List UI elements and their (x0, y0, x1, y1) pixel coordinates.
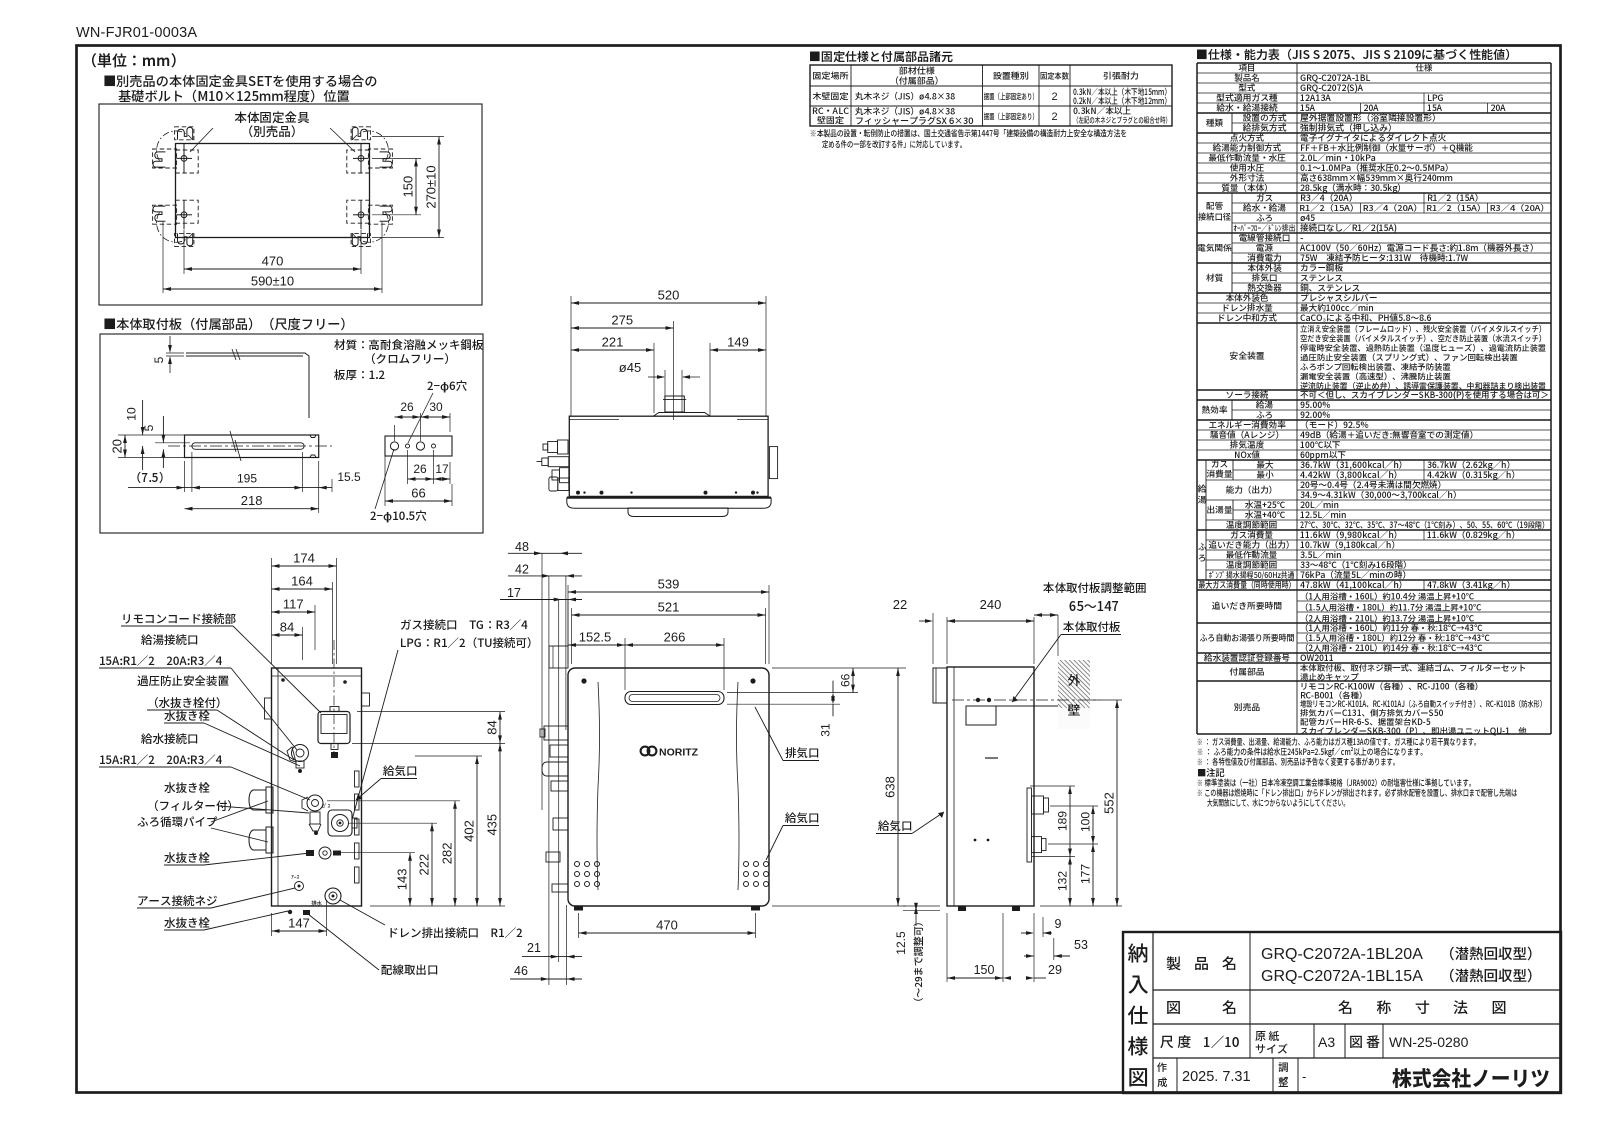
leader lines (190, 128, 213, 152)
svg-text:材質: 材質 (1206, 272, 1224, 284)
svg-text:電気関係: 電気関係 (1197, 242, 1232, 254)
svg-text:150: 150 (401, 176, 416, 198)
svg-text:150: 150 (974, 963, 995, 977)
svg-text:65～147: 65～147 (1069, 596, 1119, 615)
svg-text:図 番: 図 番 (1349, 1032, 1380, 1052)
svg-text:147: 147 (288, 916, 310, 931)
svg-text:ø45: ø45 (619, 360, 641, 375)
svg-text:リモコンコード接続部: リモコンコード接続部 (121, 611, 236, 627)
svg-text:22: 22 (893, 597, 907, 612)
svg-text:15A:R1／2 20A:R3／4: 15A:R1／2 20A:R3／4 (99, 653, 223, 669)
svg-text:本体取付板: 本体取付板 (1063, 619, 1121, 635)
svg-text:R3／4（20A）: R3／4（20A） (1363, 202, 1423, 214)
svg-text:板厚：1.2: 板厚：1.2 (334, 367, 385, 383)
svg-text:402: 402 (462, 820, 477, 842)
front view: louver dots bottom-left (575, 862, 580, 867)
svg-text:GRQ-C2072A-1BL15A: GRQ-C2072A-1BL15A (1261, 968, 1423, 985)
front view: body (568, 668, 769, 906)
svg-text:1／10: 1／10 (1203, 1031, 1240, 1051)
NORITZ logo (641, 747, 699, 759)
front view: creases (597, 682, 600, 890)
svg-text:21: 21 (527, 941, 541, 955)
svg-text:42: 42 (515, 563, 529, 577)
right side view: body (947, 667, 1034, 906)
svg-text:排水: 排水 (311, 899, 323, 907)
svg-text:552: 552 (1102, 792, 1117, 814)
svg-text:66: 66 (411, 486, 425, 501)
scale row (1313, 1024, 1315, 1058)
bolt top-left (153, 127, 199, 173)
wall with hatch (1003, 658, 1145, 729)
svg-text:164: 164 (291, 574, 313, 589)
svg-text:水抜き栓: 水抜き栓 (164, 708, 210, 724)
svg-text:LPG：R1／2（TU接続可）: LPG：R1／2（TU接続可） (400, 635, 539, 651)
drain connection (325, 888, 341, 904)
plate top profile (186, 353, 309, 418)
svg-text:590±10: 590±10 (251, 274, 294, 289)
svg-text:据置（上部固定あり）: 据置（上部固定あり） (984, 111, 1038, 123)
svg-text:付属部品: 付属部品 (1228, 665, 1264, 678)
remote cover tab on left edge (265, 698, 272, 719)
svg-text:給気口: 給気口 (383, 763, 418, 779)
center dash-dot line (168, 445, 332, 447)
svg-text:ふろ自動お湯張り所要時間: ふろ自動お湯張り所要時間 (1200, 631, 1295, 644)
svg-text:成: 成 (1157, 1075, 1168, 1090)
svg-text:ガス接続口 TG：R3／4: ガス接続口 TG：R3／4 (400, 617, 528, 633)
147 dim below left side view (271, 913, 273, 936)
svg-text:46: 46 (514, 964, 528, 978)
svg-text:2: 2 (1051, 91, 1057, 103)
svg-text:安全装置: 安全装置 (1229, 349, 1264, 362)
right-side vertical dims of side view: 143/222/282/402/435/84 (334, 852, 415, 854)
svg-text:定める件の一部を改訂する件」に対応しています。: 定める件の一部を改訂する件」に対応しています。 (822, 139, 966, 151)
svg-text:固定本数: 固定本数 (1040, 70, 1069, 82)
12.5 adjustable feet dim (903, 905, 940, 907)
svg-text:48: 48 (515, 540, 529, 554)
right bracket piece (385, 436, 452, 456)
svg-text:R1／2（15A）: R1／2（15A） (1426, 202, 1486, 214)
svg-text:R3／4（20A）: R3／4（20A） (1490, 202, 1550, 214)
給水接続口 valve cluster (307, 795, 323, 811)
svg-text:熱効率: 熱効率 (1202, 404, 1228, 416)
svg-text:（～29まで調整可）: （～29まで調整可） (910, 916, 925, 1007)
dim 470 below (578, 913, 580, 938)
svg-text:フィッシャープラグSX 6×30: フィッシャープラグSX 6×30 (855, 114, 973, 127)
bottom dims (7.5) 195 15.5 218 (191, 452, 193, 492)
svg-text:29: 29 (1048, 963, 1062, 977)
svg-text:壁: 壁 (1067, 700, 1080, 719)
svg-text:47.8kW（41,100kcal／h）: 47.8kW（41,100kcal／h） (1300, 578, 1407, 591)
svg-text:270±10: 270±10 (424, 165, 439, 208)
plate front view (185, 435, 319, 458)
svg-text:222: 222 (417, 854, 432, 876)
svg-text:11.6kW（0.829kg／h）: 11.6kW（0.829kg／h） (1427, 529, 1520, 541)
svg-text:ろ: ろ (1198, 552, 1207, 564)
svg-text:218: 218 (241, 493, 263, 508)
front view: louver dots bottom-right (744, 862, 749, 867)
svg-text:2025. 7.31: 2025. 7.31 (1182, 1069, 1251, 1085)
bolt bottom-right (347, 200, 393, 246)
title block frame (1123, 932, 1561, 1093)
svg-text:26: 26 (400, 400, 414, 414)
left protruding bath pipes (249, 790, 266, 810)
dims 26 30 above (394, 425, 396, 441)
svg-text:納: 納 (1128, 938, 1149, 968)
svg-text:給湯接続口: 給湯接続口 (141, 632, 199, 648)
top-right small tab (362, 693, 370, 706)
svg-text:WN-25-0280: WN-25-0280 (1389, 1034, 1469, 1050)
bolt top-right (347, 127, 393, 173)
svg-text:サイズ: サイズ (1255, 1041, 1288, 1057)
svg-text:20: 20 (110, 439, 125, 453)
svg-text:尺 度: 尺 度 (1160, 1032, 1191, 1052)
svg-text:製: 製 (1166, 953, 1181, 974)
svg-text:-: - (1302, 1069, 1306, 1084)
svg-text:名: 名 (1222, 997, 1237, 1018)
dim 10 (118, 434, 184, 436)
svg-text:水抜き栓: 水抜き栓 (164, 850, 210, 866)
svg-text:2−φ10.5穴: 2−φ10.5穴 (370, 508, 427, 524)
svg-text:2: 2 (1051, 111, 1057, 123)
svg-text:84: 84 (485, 720, 500, 734)
top view: exhaust flange (654, 413, 711, 417)
dim 270±10 (372, 136, 444, 138)
svg-text:追いだき所要時間: 追いだき所要時間 (1211, 599, 1283, 612)
svg-text:■仕様・能力表（JIS S 2075、JIS S 2109に: ■仕様・能力表（JIS S 2075、JIS S 2109に基づく性能値） (1196, 46, 1517, 63)
svg-text:大気開放にして、水につからないようにしてください。: 大気開放にして、水につからないようにしてください。 (1207, 796, 1349, 809)
svg-text:5: 5 (152, 356, 166, 363)
svg-text:520: 520 (658, 288, 680, 303)
svg-text:143: 143 (395, 868, 410, 890)
mounting plate + dashdot line (952, 699, 1100, 701)
front view: top screws (581, 678, 586, 683)
side view small details (985, 757, 998, 759)
svg-text:■固定仕様と付属部品諸元: ■固定仕様と付属部品諸元 (809, 48, 953, 65)
svg-text:240: 240 (980, 597, 1002, 612)
svg-text:出湯量: 出湯量 (1207, 504, 1233, 516)
svg-text:31: 31 (819, 723, 833, 737)
svg-text:47.8kW（3.41kg／h）: 47.8kW（3.41kg／h） (1427, 579, 1515, 591)
svg-text:配線取出口: 配線取出口 (381, 962, 439, 978)
svg-text:100: 100 (1079, 812, 1093, 832)
dim 5 (profile thickness) (166, 352, 184, 354)
svg-text:638: 638 (883, 776, 898, 798)
svg-text:外: 外 (1067, 670, 1080, 689)
pipes right bottom (1027, 788, 1032, 862)
svg-text:アース接続ネジ: アース接続ネジ (137, 893, 218, 909)
top view: small bottom dots (576, 491, 580, 495)
small valve at 143 (319, 847, 331, 859)
front view: left side connector silhouettes (549, 646, 568, 668)
svg-text:名 称 寸 法 図: 名 称 寸 法 図 (1338, 997, 1517, 1018)
水抜き栓 valve upper (292, 745, 309, 762)
svg-text:作: 作 (1157, 1060, 1168, 1075)
remote cover box (318, 712, 350, 744)
dim 66 (384, 450, 386, 506)
svg-text:WN-FJR01-0003A: WN-FJR01-0003A (76, 25, 197, 41)
svg-text:過圧防止安全装置: 過圧防止安全装置 (137, 673, 229, 689)
svg-text:521: 521 (658, 600, 680, 615)
svg-text:435: 435 (485, 814, 500, 836)
svg-text:（7.5）: （7.5） (129, 469, 170, 486)
dim 5 (slot) (155, 442, 190, 444)
earth screw (295, 882, 304, 891)
spec table grid (1197, 62, 1551, 64)
svg-text:53: 53 (1074, 938, 1088, 952)
svg-text:名: 名 (1222, 953, 1237, 974)
svg-text:10: 10 (125, 407, 139, 421)
date row (1176, 1058, 1178, 1093)
long extension lines (541, 553, 543, 810)
connectors of side view (281, 678, 285, 682)
svg-text:木壁固定: 木壁固定 (812, 90, 849, 103)
ガス接続口 component (328, 810, 352, 836)
svg-text:-: - (1284, 1069, 1288, 1084)
left side view: body (272, 668, 362, 906)
svg-text:仕様: 仕様 (1414, 62, 1433, 74)
svg-text:ドレン中和方式: ドレン中和方式 (1217, 312, 1278, 324)
svg-text:給水装置認証登録番号: 給水装置認証登録番号 (1204, 652, 1290, 664)
front view: dims 152.5 / 266 (624, 638, 626, 690)
svg-text:9: 9 (1055, 917, 1062, 931)
svg-text:20A: 20A (1491, 102, 1507, 114)
bolt bottom-left (153, 200, 199, 246)
svg-text:（付属部品）: （付属部品） (890, 74, 944, 87)
svg-text:17: 17 (435, 462, 449, 476)
top view: left connectors (558, 440, 569, 454)
dim 590±10 (162, 222, 164, 293)
dim 150 (372, 157, 421, 159)
svg-text:（潜熱回収型）: （潜熱回収型） (1440, 965, 1542, 986)
svg-text:排気口: 排気口 (785, 745, 820, 761)
svg-text:水抜き栓: 水抜き栓 (164, 780, 210, 796)
svg-text:（潜熱回収型）: （潜熱回収型） (1440, 943, 1542, 964)
svg-text:174: 174 (293, 551, 315, 566)
svg-text:据置（上部固定あり）: 据置（上部固定あり） (984, 91, 1038, 103)
svg-text:30: 30 (429, 400, 443, 414)
svg-text:ｶﾞｽ: ｶﾞｽ (322, 802, 331, 810)
small drain bits bottom (303, 910, 310, 915)
svg-text:5: 5 (142, 424, 156, 431)
svg-text:水抜き栓: 水抜き栓 (164, 915, 210, 931)
svg-text:149: 149 (727, 335, 749, 350)
svg-text:給気口: 給気口 (785, 810, 820, 826)
bolt layout box (99, 104, 482, 305)
svg-text:84: 84 (280, 620, 294, 635)
slot (192, 443, 304, 450)
svg-text:152.5: 152.5 (579, 630, 612, 645)
mounting plate box (100, 334, 483, 533)
svg-text:275: 275 (611, 313, 633, 328)
unit footprint rect (176, 144, 370, 238)
svg-text:15A:R1／2 20A:R3／4: 15A:R1／2 20A:R3／4 (99, 752, 223, 768)
svg-text:接続口なし／R1／2(15A): 接続口なし／R1／2(15A) (1299, 222, 1397, 234)
svg-text:470: 470 (262, 254, 284, 269)
svg-text:282: 282 (440, 843, 455, 865)
right dims 66 / 31 / 638 (772, 667, 906, 669)
svg-text:図: 図 (1166, 997, 1181, 1018)
vent slits right edge (355, 771, 360, 787)
svg-text:（別売品）: （別売品） (241, 121, 304, 140)
svg-text:株式会社ノーリツ: 株式会社ノーリツ (1392, 1063, 1550, 1093)
svg-text:470: 470 (656, 918, 678, 933)
svg-text:A3: A3 (1318, 1034, 1335, 1050)
svg-text:ドレン排出接続口 R1／2: ドレン排出接続口 R1／2 (387, 925, 523, 941)
svg-text:266: 266 (664, 630, 686, 645)
svg-text:■本体取付板（付属部品）（尺度フリー）: ■本体取付板（付属部品）（尺度フリー） (103, 314, 354, 333)
svg-text:様: 様 (1128, 1031, 1149, 1061)
svg-text:丸木ネジ（JIS）ø4.8×38: 丸木ネジ（JIS）ø4.8×38 (855, 90, 955, 103)
svg-text:給気口: 給気口 (878, 818, 913, 834)
svg-text:接続口径: 接続口径 (1197, 211, 1231, 223)
front view: top dims 539/521 (567, 585, 569, 664)
svg-text:（単位：mm）: （単位：mm） (82, 50, 186, 71)
svg-text:195: 195 (237, 472, 257, 486)
top-left tab (flue side) (933, 668, 947, 703)
top view: body (569, 416, 768, 496)
svg-text:消費量: 消費量 (1205, 468, 1232, 480)
svg-text:26: 26 (413, 462, 427, 476)
svg-text:図: 図 (1128, 1062, 1149, 1092)
vertical dims right: 189/100/132/177/552 (1030, 785, 1075, 787)
svg-text:189: 189 (1056, 811, 1070, 831)
svg-text:（左記の木ネジとプラグとの組合せ時）: （左記の木ネジとプラグとの組合せ時） (1073, 115, 1171, 126)
svg-text:2−φ6穴: 2−φ6穴 (427, 378, 468, 394)
svg-text:※ ： 各特性値及び付属部品、別売品は予告なく変更する事があ: ※ ： 各特性値及び付属部品、別売品は予告なく変更する事があります。 (1197, 755, 1399, 768)
svg-text:引張耐力: 引張耐力 (1103, 69, 1139, 82)
left side view: top dims 174/164/117/84 (271, 558, 273, 664)
svg-text:設置種別: 設置種別 (993, 69, 1029, 82)
svg-text:12.5: 12.5 (894, 931, 908, 955)
svg-text:最小: 最小 (1256, 469, 1274, 481)
dim 20 (118, 457, 184, 459)
dims 26 17 below (407, 450, 409, 484)
dim 470 (183, 230, 185, 274)
top view: dims (570, 296, 572, 416)
svg-text:給水接続口: 給水接続口 (141, 731, 199, 747)
svg-text:不可＜但し、スカイブレンダーSKB-300(P)を使用する場: 不可＜但し、スカイブレンダーSKB-300(P)を使用する場合は可＞ (1300, 389, 1549, 401)
svg-text:ｱｰｽ: ｱｰｽ (291, 873, 300, 881)
top view: right tab (769, 447, 777, 479)
svg-text:132: 132 (1056, 871, 1070, 891)
svg-text:（フィルター付）: （フィルター付） (147, 798, 239, 814)
svg-text:66: 66 (839, 673, 853, 687)
svg-text:基礎ボルト（M10×125mm程度）位置: 基礎ボルト（M10×125mm程度）位置 (118, 86, 350, 105)
svg-text:能力（出力）: 能力（出力） (1226, 484, 1278, 496)
svg-text:117: 117 (283, 597, 304, 612)
svg-text:539: 539 (658, 577, 680, 592)
fixing table grid (810, 65, 1172, 126)
svg-text:17: 17 (507, 586, 521, 600)
svg-text:221: 221 (602, 335, 624, 350)
svg-text:入: 入 (1128, 969, 1149, 999)
svg-text:最大ガス消費量（同時使用時）: 最大ガス消費量（同時使用時） (1199, 578, 1296, 591)
svg-text:177: 177 (1079, 864, 1093, 884)
svg-text:（クロムフリー）: （クロムフリー） (364, 351, 456, 367)
top view: bottom pan (628, 508, 728, 517)
svg-text:ふろ循環パイプ: ふろ循環パイプ (137, 814, 218, 830)
front view: feet (574, 906, 583, 911)
svg-text:別売品: 別売品 (1234, 701, 1261, 714)
svg-text:種類: 種類 (1206, 117, 1224, 129)
top view: exhaust stub cap (665, 396, 684, 412)
svg-text:固定場所: 固定場所 (812, 69, 848, 82)
svg-text:15.5: 15.5 (337, 470, 361, 484)
svg-text:仕: 仕 (1128, 1000, 1149, 1030)
svg-text:湯: 湯 (1198, 494, 1207, 506)
product name row (1249, 932, 1251, 1058)
svg-text:NORITZ: NORITZ (659, 747, 699, 759)
front view: louver slot (625, 692, 724, 705)
svg-text:品: 品 (1194, 953, 1209, 974)
svg-text:GRQ-C2072A-1BL20A: GRQ-C2072A-1BL20A (1261, 946, 1423, 963)
svg-text:本体取付板調整範囲: 本体取付板調整範囲 (1043, 580, 1147, 596)
top view: base tray (567, 497, 771, 499)
svg-text:壁固定: 壁固定 (817, 114, 845, 127)
